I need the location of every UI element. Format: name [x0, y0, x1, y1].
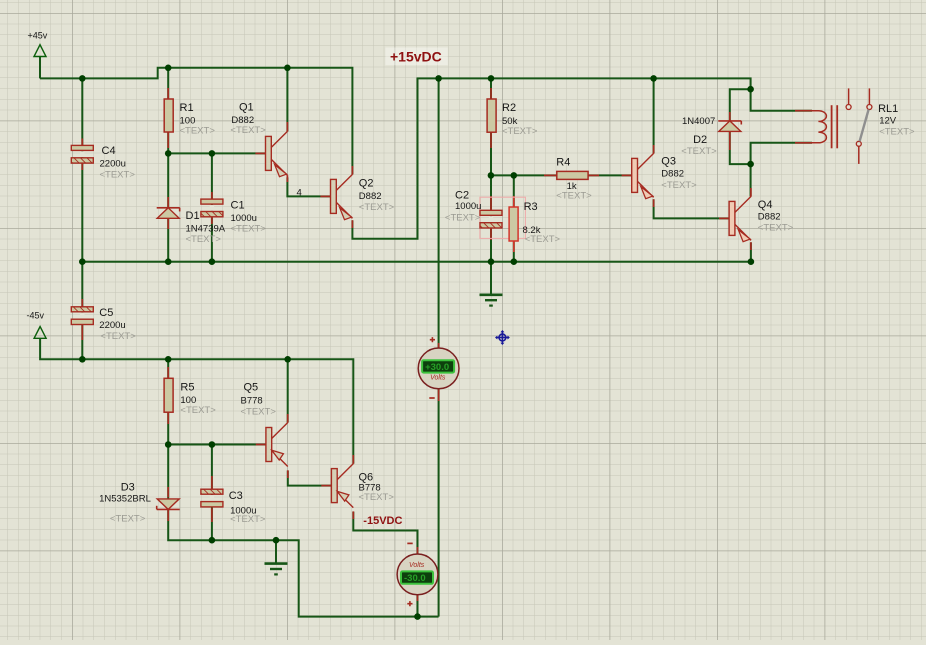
wire C3 column — [211, 445, 213, 541]
svg-text:1N5352BRL: 1N5352BRL — [99, 494, 151, 505]
wire mid ground rail — [82, 261, 751, 263]
svg-text:<TEXT>: <TEXT> — [186, 234, 222, 245]
wire +15V to voltmeter PV1 — [438, 78, 440, 348]
power -45v — [34, 327, 46, 339]
svg-text:<TEXT>: <TEXT> — [556, 190, 592, 201]
svg-text:<TEXT>: <TEXT> — [359, 202, 395, 213]
transistor Q3 D882 — [622, 174, 632, 176]
wire voltmeter PV2 plus stem — [417, 595, 419, 617]
pins D3 — [167, 487, 169, 497]
svg-text:R2: R2 — [502, 102, 516, 114]
origin marker — [495, 330, 510, 345]
svg-text:Volts: Volts — [409, 562, 425, 569]
svg-text:B778: B778 — [241, 396, 263, 407]
svg-text:1N4739A: 1N4739A — [186, 224, 226, 235]
pins C5 — [81, 299, 83, 307]
wire Q4 emitter to rail — [750, 242, 752, 261]
svg-text:D882: D882 — [359, 191, 382, 202]
svg-text:-15VDC: -15VDC — [363, 515, 402, 527]
svg-text:12V: 12V — [879, 115, 897, 126]
svg-text:<TEXT>: <TEXT> — [502, 126, 538, 137]
svg-text:1000u: 1000u — [231, 213, 257, 224]
wire ground stem center — [490, 262, 492, 295]
wire Q5 emitter to Q6 base — [288, 471, 332, 486]
diode D2 1N4007 — [718, 120, 741, 122]
pins C2 — [490, 196, 492, 210]
svg-text:C1: C1 — [231, 200, 245, 212]
wire R1/D1 column — [167, 68, 169, 262]
wire Q5 base row — [168, 444, 266, 446]
svg-text:Q5: Q5 — [244, 382, 259, 394]
svg-text:<TEXT>: <TEXT> — [359, 492, 395, 503]
wire voltmeter PV1 minus return — [438, 389, 440, 617]
wire C1 column — [211, 153, 213, 261]
svg-text:<TEXT>: <TEXT> — [758, 223, 794, 234]
pins C1 — [211, 192, 213, 199]
svg-text:C5: C5 — [99, 307, 113, 319]
svg-text:C3: C3 — [229, 490, 243, 502]
zener diode D3 1N5352BRL — [157, 508, 180, 510]
transistor Q2 D882 — [320, 195, 330, 197]
svg-text:RL1: RL1 — [878, 103, 898, 115]
wire Q1 collector — [286, 68, 288, 132]
voltmeter PV2 — [397, 554, 438, 595]
svg-text:<TEXT>: <TEXT> — [879, 126, 915, 137]
wire D3 column and bottom return — [168, 445, 438, 617]
pins D1 — [167, 197, 169, 208]
svg-text:R4: R4 — [556, 156, 570, 168]
pins Q6 collector/emitter — [352, 455, 354, 464]
svg-text:R3: R3 — [524, 201, 538, 213]
svg-text:+45v: +45v — [28, 31, 48, 41]
wire Q3 collector — [653, 78, 655, 153]
resistor R3 — [509, 207, 518, 241]
svg-text:Q2: Q2 — [359, 177, 374, 189]
pins voltmeter PV1 — [438, 343, 440, 349]
pins Q4 collector/emitter — [750, 188, 752, 197]
pins Q3 collector/emitter — [653, 145, 655, 154]
svg-text:Q3: Q3 — [661, 155, 676, 167]
capacitor C4 — [80, 151, 84, 157]
relay RL1 pole — [860, 110, 869, 142]
wire R4 row — [491, 174, 632, 176]
svg-text:R1: R1 — [180, 102, 194, 114]
wire D2 branch — [730, 89, 751, 164]
svg-text:D1: D1 — [186, 210, 200, 222]
svg-text:<TEXT>: <TEXT> — [231, 224, 267, 235]
svg-text:<TEXT>: <TEXT> — [241, 407, 277, 418]
pins R1 — [167, 88, 169, 99]
svg-text:Q6: Q6 — [359, 472, 374, 484]
wire R3 column — [513, 175, 515, 261]
net label +15vDC — [385, 48, 447, 66]
relay RL1 coil — [812, 111, 826, 143]
pins R3 — [513, 196, 515, 207]
resistor R2 — [487, 99, 496, 132]
wire Q3 emitter to Q4 base — [654, 199, 730, 218]
svg-text:-30.0: -30.0 — [404, 573, 426, 584]
transistor Q6 B778 — [321, 485, 331, 487]
capacitor C1 — [210, 205, 214, 211]
pins R5 — [167, 367, 169, 378]
capacitor C5 — [80, 313, 84, 319]
capacitor C2 — [489, 216, 493, 222]
svg-text:<TEXT>: <TEXT> — [100, 170, 136, 181]
svg-text:<TEXT>: <TEXT> — [100, 331, 136, 342]
svg-text:<TEXT>: <TEXT> — [445, 213, 481, 224]
junction dots — [79, 75, 86, 82]
svg-text:<TEXT>: <TEXT> — [661, 180, 697, 191]
wire Q2 emitter to +15V rail and relay coil top — [352, 78, 812, 238]
pins C4 — [81, 139, 83, 146]
pins D2 — [729, 112, 731, 121]
svg-text:Volts: Volts — [430, 375, 446, 382]
wire R5 column — [167, 359, 169, 444]
svg-text:C2: C2 — [455, 190, 469, 202]
svg-text:-45v: -45v — [27, 311, 45, 321]
svg-text:D2: D2 — [693, 134, 707, 146]
resistor R1 — [164, 99, 173, 132]
svg-text:2200u: 2200u — [99, 320, 125, 331]
svg-text:<TEXT>: <TEXT> — [180, 126, 216, 137]
svg-text:D882: D882 — [758, 211, 781, 222]
svg-text:<TEXT>: <TEXT> — [230, 125, 266, 136]
wire relay coil bottom to Q4 collector — [751, 143, 812, 197]
svg-text:<TEXT>: <TEXT> — [180, 405, 216, 416]
svg-text:+30.0: +30.0 — [425, 362, 449, 373]
ground center — [480, 293, 503, 296]
resistor R4 — [557, 171, 588, 179]
svg-text:1000u: 1000u — [455, 201, 481, 212]
wire R2 column — [490, 78, 492, 175]
capacitor C3 — [210, 495, 214, 501]
wire ground stem lower — [275, 540, 277, 563]
selection highlight C2 — [480, 197, 526, 238]
wire +45v rail top — [40, 68, 352, 175]
transistor Q1 D882 — [255, 152, 265, 154]
pins R2 — [490, 88, 492, 99]
svg-text:Q1: Q1 — [239, 102, 254, 114]
wire Q6 emitter -15VDC node — [353, 512, 417, 555]
pins C3 — [211, 476, 213, 489]
pins relay coil — [795, 110, 812, 112]
wire C4/C5 column — [81, 78, 83, 359]
zener diode D1 1N4739A — [157, 207, 180, 209]
svg-text:2200u: 2200u — [100, 159, 126, 170]
relay RL1 contacts — [848, 88, 850, 104]
svg-text:D3: D3 — [121, 482, 135, 494]
svg-text:<TEXT>: <TEXT> — [525, 234, 561, 245]
voltmeter PV1 — [418, 348, 459, 389]
ground lower — [265, 562, 288, 565]
power +45v — [34, 45, 46, 57]
svg-text:<TEXT>: <TEXT> — [110, 514, 146, 525]
pins voltmeter PV2 — [417, 547, 419, 555]
svg-text:C4: C4 — [102, 145, 116, 157]
svg-text:<TEXT>: <TEXT> — [230, 514, 266, 525]
wire Q1 base row — [168, 152, 265, 154]
svg-text:D882: D882 — [661, 169, 684, 180]
wire -45v rail — [40, 338, 353, 463]
pins Q1 collector/emitter — [286, 122, 288, 132]
svg-text:Q4: Q4 — [758, 199, 773, 211]
resistor R5 — [164, 378, 173, 412]
transistor Q4 D882 — [719, 217, 729, 219]
svg-text:1N4007: 1N4007 — [682, 116, 715, 127]
wire C2 column — [490, 175, 492, 261]
wire Q1 emitter to Q2 base (node 4) — [287, 177, 330, 196]
wire +45v stem — [39, 57, 41, 79]
pins R4 — [544, 174, 557, 176]
svg-text:R5: R5 — [180, 382, 194, 394]
svg-text:4: 4 — [297, 188, 302, 199]
pins Q2 collector/emitter — [351, 166, 353, 175]
relay RL1 core — [831, 105, 833, 148]
svg-text:+15vDC: +15vDC — [390, 49, 442, 65]
transistor Q5 B778 — [256, 444, 266, 446]
wire Q5 collector — [287, 359, 289, 422]
pins Q5 collector/emitter — [287, 414, 289, 423]
svg-text:<TEXT>: <TEXT> — [681, 146, 717, 157]
